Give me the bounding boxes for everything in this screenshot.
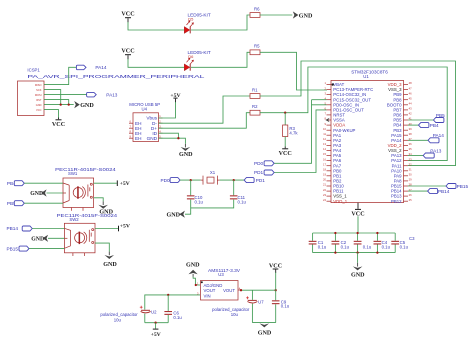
svg-text:0.1u: 0.1u [173, 315, 182, 320]
junction bottom rail c [376, 251, 378, 253]
svg-text:GND: GND [103, 262, 117, 268]
svg-text:C3: C3 [409, 236, 415, 241]
label polarized capacitor U7 [212, 307, 250, 317]
wire SW2 to +5V [95, 228, 118, 230]
junction +5V tap [154, 322, 156, 324]
wire R5 to PC13 riser [260, 52, 327, 90]
ground ICSP [74, 101, 94, 109]
supply VCC row1 [121, 12, 134, 23]
wire PB14 to SW2 [32, 228, 64, 230]
wire LED to R6 [191, 15, 250, 30]
junction ICSP gnd b [68, 103, 70, 105]
svg-text:PB4: PB4 [430, 123, 439, 128]
junction crystal left [190, 179, 192, 181]
svg-text:4.7k: 4.7k [289, 131, 298, 136]
svg-text:12: 12 [323, 137, 326, 141]
wire ICSP pin2 to GND junction [44, 90, 61, 105]
svg-text:VIN: VIN [204, 293, 211, 298]
wire PB5 [408, 119, 434, 121]
flag PB15 (SW2) [7, 246, 30, 251]
svg-text:SCK: SCK [36, 88, 42, 92]
svg-text:16: 16 [323, 157, 326, 161]
supply +5V SW1 [117, 180, 131, 186]
wire VCC to LED D5 [128, 22, 186, 30]
svg-text:GND: GND [258, 330, 272, 336]
polarized capacitor U7 [246, 290, 264, 322]
wire D+ to R2 [159, 113, 251, 129]
wire ICSP pin5 to GND [44, 104, 74, 106]
wire ID to GND net [159, 133, 179, 138]
wire GND to SW1 common [47, 192, 64, 194]
svg-text:29: 29 [409, 178, 412, 182]
svg-text:AMS1117-3.3V: AMS1117-3.3V [208, 268, 240, 273]
svg-text:0.1u: 0.1u [281, 304, 290, 309]
svg-text:13: 13 [323, 142, 326, 146]
flag PD0 (MCU) [254, 161, 274, 166]
wire junction to C11 [233, 180, 235, 195]
junction R3 tap [284, 112, 286, 114]
pin numbers U1 left [323, 81, 327, 202]
junction bottom rail b [356, 251, 358, 253]
svg-text:GND: GND [80, 103, 94, 109]
flag PB5 (SW1) [7, 201, 24, 206]
svg-text:+5V: +5V [120, 224, 131, 230]
resistor R1 [250, 87, 260, 98]
svg-text:PD1: PD1 [256, 178, 266, 183]
svg-text:26: 26 [409, 193, 412, 197]
svg-text:23: 23 [323, 193, 326, 197]
svg-text:MOSI: MOSI [35, 93, 42, 97]
svg-text:VCC: VCC [52, 122, 65, 128]
wire cap bank top rail [313, 232, 396, 234]
wire PB15 to SW2 [29, 248, 64, 250]
svg-text:14: 14 [323, 147, 326, 151]
wire SW2 switch to GND [95, 243, 109, 252]
junction VCC out [275, 289, 277, 291]
svg-text:VCC: VCC [36, 108, 42, 112]
capacitor C10 [187, 195, 204, 204]
ground USB [179, 147, 193, 158]
svg-text:PB12: PB12 [391, 199, 402, 204]
ground cap bank [351, 263, 365, 279]
svg-text:10: 10 [323, 127, 326, 131]
wire R2 to PA12 rail (D+) [260, 67, 447, 161]
junction top rail a [334, 232, 336, 234]
flag PA14 (MCU) [428, 133, 444, 143]
svg-text:PA13: PA13 [106, 92, 118, 97]
ground SW1 right [98, 205, 113, 216]
junction ICSP gnd a [60, 103, 62, 105]
svg-text:44: 44 [409, 102, 412, 106]
IC U1 STM32F103C8T6 [331, 69, 404, 202]
wire input gnd rail [145, 322, 168, 324]
junction crystal right [233, 179, 235, 181]
svg-text:21: 21 [323, 183, 326, 187]
svg-text:SW2: SW2 [69, 217, 79, 222]
svg-text:45: 45 [409, 96, 412, 100]
supply VCC row2 [121, 49, 134, 60]
svg-text:U1: U1 [363, 74, 369, 79]
svg-text:10u: 10u [114, 318, 122, 323]
svg-text:PA14: PA14 [95, 65, 107, 70]
junction VOUT [240, 289, 242, 291]
wire R1 to PA11 rail (D-) [260, 61, 456, 166]
pin names U1 left [333, 82, 373, 204]
wire PA13 [408, 155, 423, 157]
svg-text:SW1: SW1 [68, 171, 78, 176]
supply VCC ICSP [52, 118, 65, 128]
capacitor C2 [332, 233, 350, 253]
svg-text:0.1u: 0.1u [341, 245, 350, 250]
wire R6 to GND [260, 14, 292, 16]
capacitor C1 [309, 233, 327, 253]
wire PD1 pin to flag [273, 110, 327, 173]
regulator U3 AMS1117-3.3V [197, 268, 241, 300]
wire PA14 [408, 139, 428, 141]
wire VCC to LED D6 [128, 59, 186, 67]
capacitor C9 [272, 290, 290, 322]
svg-text:GND: GND [179, 152, 193, 158]
wire ICSP pin6 to VCC [44, 110, 59, 118]
svg-text:PEC11R-4015F-S0024: PEC11R-4015F-S0024 [55, 167, 116, 172]
svg-text:X1: X1 [210, 170, 216, 175]
rotary encoder SW1 [55, 167, 116, 211]
svg-text:20: 20 [323, 178, 326, 182]
supply +5V SW2 [118, 224, 131, 232]
svg-text:PD1: PD1 [254, 170, 264, 175]
pin stubs U1 right [404, 85, 409, 202]
svg-text:PA13: PA13 [430, 148, 442, 153]
supply +5V input [151, 329, 162, 338]
svg-text:36: 36 [409, 142, 412, 146]
svg-text:PB5: PB5 [436, 113, 445, 118]
svg-text:31: 31 [409, 168, 412, 172]
wire PB5 to SW1 [24, 202, 63, 204]
svg-text:PB14: PB14 [438, 189, 450, 194]
resistor R3 [283, 125, 299, 137]
svg-text:VDD_1: VDD_1 [333, 199, 347, 204]
svg-text:47: 47 [409, 86, 412, 90]
svg-text:GND: GND [186, 262, 200, 268]
svg-text:22: 22 [323, 188, 326, 192]
svg-text:polarized_capacitor: polarized_capacitor [100, 312, 138, 317]
svg-text:GND: GND [299, 13, 313, 19]
supply +5V USB [170, 93, 181, 103]
svg-text:R5: R5 [254, 44, 260, 49]
svg-text:PEC11R-4015F-S0024: PEC11R-4015F-S0024 [57, 213, 118, 218]
flag PD0 (crystal) [161, 178, 181, 183]
ground crystal [167, 211, 185, 219]
svg-text:EH: EH [135, 136, 142, 141]
flag PD1 (MCU) [254, 170, 274, 175]
wire VCC to VOUT rail [275, 273, 277, 291]
svg-text:PA14: PA14 [433, 133, 445, 138]
flag PB4 [419, 123, 440, 128]
capacitor C4 [374, 233, 391, 253]
svg-text:VCC: VCC [279, 151, 292, 157]
svg-text:GND: GND [167, 212, 181, 218]
LED D6 [184, 50, 211, 71]
flag PA13 (MCU) [423, 148, 442, 158]
wire GND to SW2 common [48, 237, 64, 239]
wire PD0 flag to crystal [180, 179, 201, 181]
svg-text:PD0: PD0 [254, 161, 264, 166]
svg-text:R2: R2 [252, 104, 258, 109]
wire D- to R1 [159, 96, 251, 123]
svg-text:24: 24 [323, 198, 326, 202]
svg-text:PB14: PB14 [7, 226, 19, 231]
crystal X1 [201, 170, 220, 184]
wire +5V to Vbus [159, 102, 176, 118]
svg-text:VOUT: VOUT [223, 288, 235, 293]
svg-text:GND: GND [30, 191, 43, 197]
svg-text:30: 30 [409, 173, 412, 177]
svg-text:15: 15 [323, 152, 326, 156]
ground above U3 [186, 262, 200, 276]
wire ICSP pin4 to GND junction [44, 100, 69, 105]
wire ICSP pin3 to PA13 flag [44, 94, 87, 96]
node VBAT dot [332, 83, 334, 85]
svg-text:+5V: +5V [151, 332, 162, 338]
wire ICSP pin1 to PA14 flag [44, 67, 77, 84]
junction USB gnd [177, 137, 179, 139]
svg-text:35: 35 [409, 147, 412, 151]
svg-text:0.1u: 0.1u [363, 245, 372, 250]
flag PA13 (ICSP) [87, 92, 118, 97]
wire PB14 [408, 190, 428, 192]
svg-text:PB15: PB15 [7, 246, 19, 251]
svg-text:0.1u: 0.1u [400, 245, 409, 250]
ground SW1 left [30, 189, 46, 197]
svg-text:R1: R1 [252, 87, 258, 92]
wire VCC to cap bank [357, 216, 359, 233]
svg-text:RST: RST [36, 98, 42, 102]
capacitor C6 [164, 295, 182, 323]
svg-text:0.1u: 0.1u [318, 245, 327, 250]
junction C6 top [167, 294, 169, 296]
svg-text:17: 17 [323, 162, 326, 166]
svg-text:GND: GND [36, 103, 42, 107]
svg-text:43: 43 [409, 107, 412, 111]
ground stub SW2 [108, 252, 110, 256]
polarized capacitor U2 [100, 306, 157, 323]
svg-text:10u: 10u [231, 312, 239, 317]
resistor R2 [250, 104, 260, 115]
ground VSSA mini [325, 118, 329, 122]
svg-text:25: 25 [409, 198, 412, 202]
svg-text:0.1u: 0.1u [195, 199, 204, 204]
connector U4 micro usb [129, 102, 163, 142]
svg-text:U7: U7 [258, 300, 264, 305]
svg-text:+5V: +5V [120, 181, 131, 187]
svg-text:19: 19 [323, 173, 326, 177]
flag PB5 [434, 113, 446, 123]
ground output [258, 323, 272, 336]
svg-text:STM32F103C8T6: STM32F103C8T6 [351, 69, 388, 74]
capacitor C5 [391, 233, 408, 253]
resistor R6 [250, 6, 260, 17]
wire to +5V [155, 323, 157, 329]
svg-text:GND: GND [147, 136, 158, 141]
supply VCC output [269, 264, 282, 273]
wire C10 to GND [185, 200, 191, 215]
svg-text:42: 42 [409, 112, 412, 116]
svg-text:0.1u: 0.1u [238, 199, 247, 204]
pin names U1 right [387, 82, 402, 204]
wire SW1 to +5V [94, 182, 117, 184]
svg-text:GND: GND [31, 237, 44, 243]
wire R3 to VCC [284, 137, 286, 147]
wire cap bank bottom rail [313, 252, 396, 254]
connector ICSP1 [18, 68, 206, 116]
wire junction to R3 [284, 113, 286, 125]
svg-text:48: 48 [409, 81, 412, 85]
wire C11 to C10 gnd [191, 200, 234, 208]
flag PB4 (SW1) [7, 181, 24, 186]
ground stub SW1 [102, 201, 104, 205]
pin stubs U1 left [327, 85, 332, 202]
svg-text:U2: U2 [151, 309, 157, 314]
ground SW2 right [103, 255, 117, 268]
junction top rail b [356, 232, 358, 234]
svg-text:0.1u: 0.1u [382, 245, 391, 250]
svg-text:GND: GND [351, 272, 365, 278]
junction top rail c [376, 232, 378, 234]
flag PB14 (SW2) [7, 226, 33, 231]
svg-text:18: 18 [323, 168, 326, 172]
wire PC15 stub [312, 99, 327, 101]
wire GND to ADJ pin [193, 277, 200, 285]
wire VOUT right [241, 289, 276, 291]
svg-text:ICSP1: ICSP1 [27, 68, 40, 73]
svg-text:MISO: MISO [35, 83, 42, 87]
svg-text:U4: U4 [142, 107, 148, 112]
svg-text:PD0: PD0 [161, 178, 171, 183]
wire USB GND [159, 138, 186, 144]
svg-text:PA_AVR_SPI_PROGRAMMER_PERIPHER: PA_AVR_SPI_PROGRAMMER_PERIPHERAL [27, 74, 205, 79]
ground row1 [293, 11, 313, 19]
svg-text:R6: R6 [254, 6, 260, 11]
wire VIN left to input caps [145, 295, 200, 310]
supply VCC R3 [279, 147, 292, 157]
supply VCC under U1 [351, 203, 364, 218]
svg-text:PB15: PB15 [457, 184, 469, 189]
capacitor C3 [354, 233, 415, 253]
wire junction to C10 [190, 180, 192, 195]
ground stub USB [184, 144, 186, 148]
flag PB14 [428, 189, 450, 195]
wire PD0 pin to flag [273, 100, 327, 164]
wire LED to R5 [191, 52, 250, 67]
svg-text:VCC: VCC [121, 12, 134, 18]
wire PB4 [408, 124, 419, 126]
capacitor C11 [230, 195, 247, 204]
svg-text:46: 46 [409, 91, 412, 95]
LED D5 [184, 13, 211, 34]
svg-text:VCC: VCC [121, 49, 134, 55]
svg-text:32: 32 [409, 162, 412, 166]
svg-text:38: 38 [409, 132, 412, 136]
resistor R5 [250, 44, 260, 55]
ground SW2 left [31, 235, 48, 243]
flag PA14 (ICSP) [76, 65, 107, 70]
wire PB15 [408, 185, 446, 187]
pin numbers U1 right [409, 81, 412, 202]
svg-text:33: 33 [409, 157, 412, 161]
svg-text:U3: U3 [218, 272, 224, 277]
flag PD1 (crystal) [244, 178, 265, 183]
junction ADJ [195, 284, 197, 286]
wire output gnd rail [252, 322, 275, 324]
wire bank to GND [357, 253, 359, 263]
wire SW1 switch to GND [94, 198, 104, 202]
wire PB4 to SW1 [24, 182, 63, 184]
junction bottom rail a [334, 251, 336, 253]
rotary encoder SW2 [57, 213, 118, 256]
svg-text:39: 39 [409, 127, 412, 131]
flag PB15 [446, 184, 468, 190]
wire crystal to PD1 flag [220, 179, 245, 181]
